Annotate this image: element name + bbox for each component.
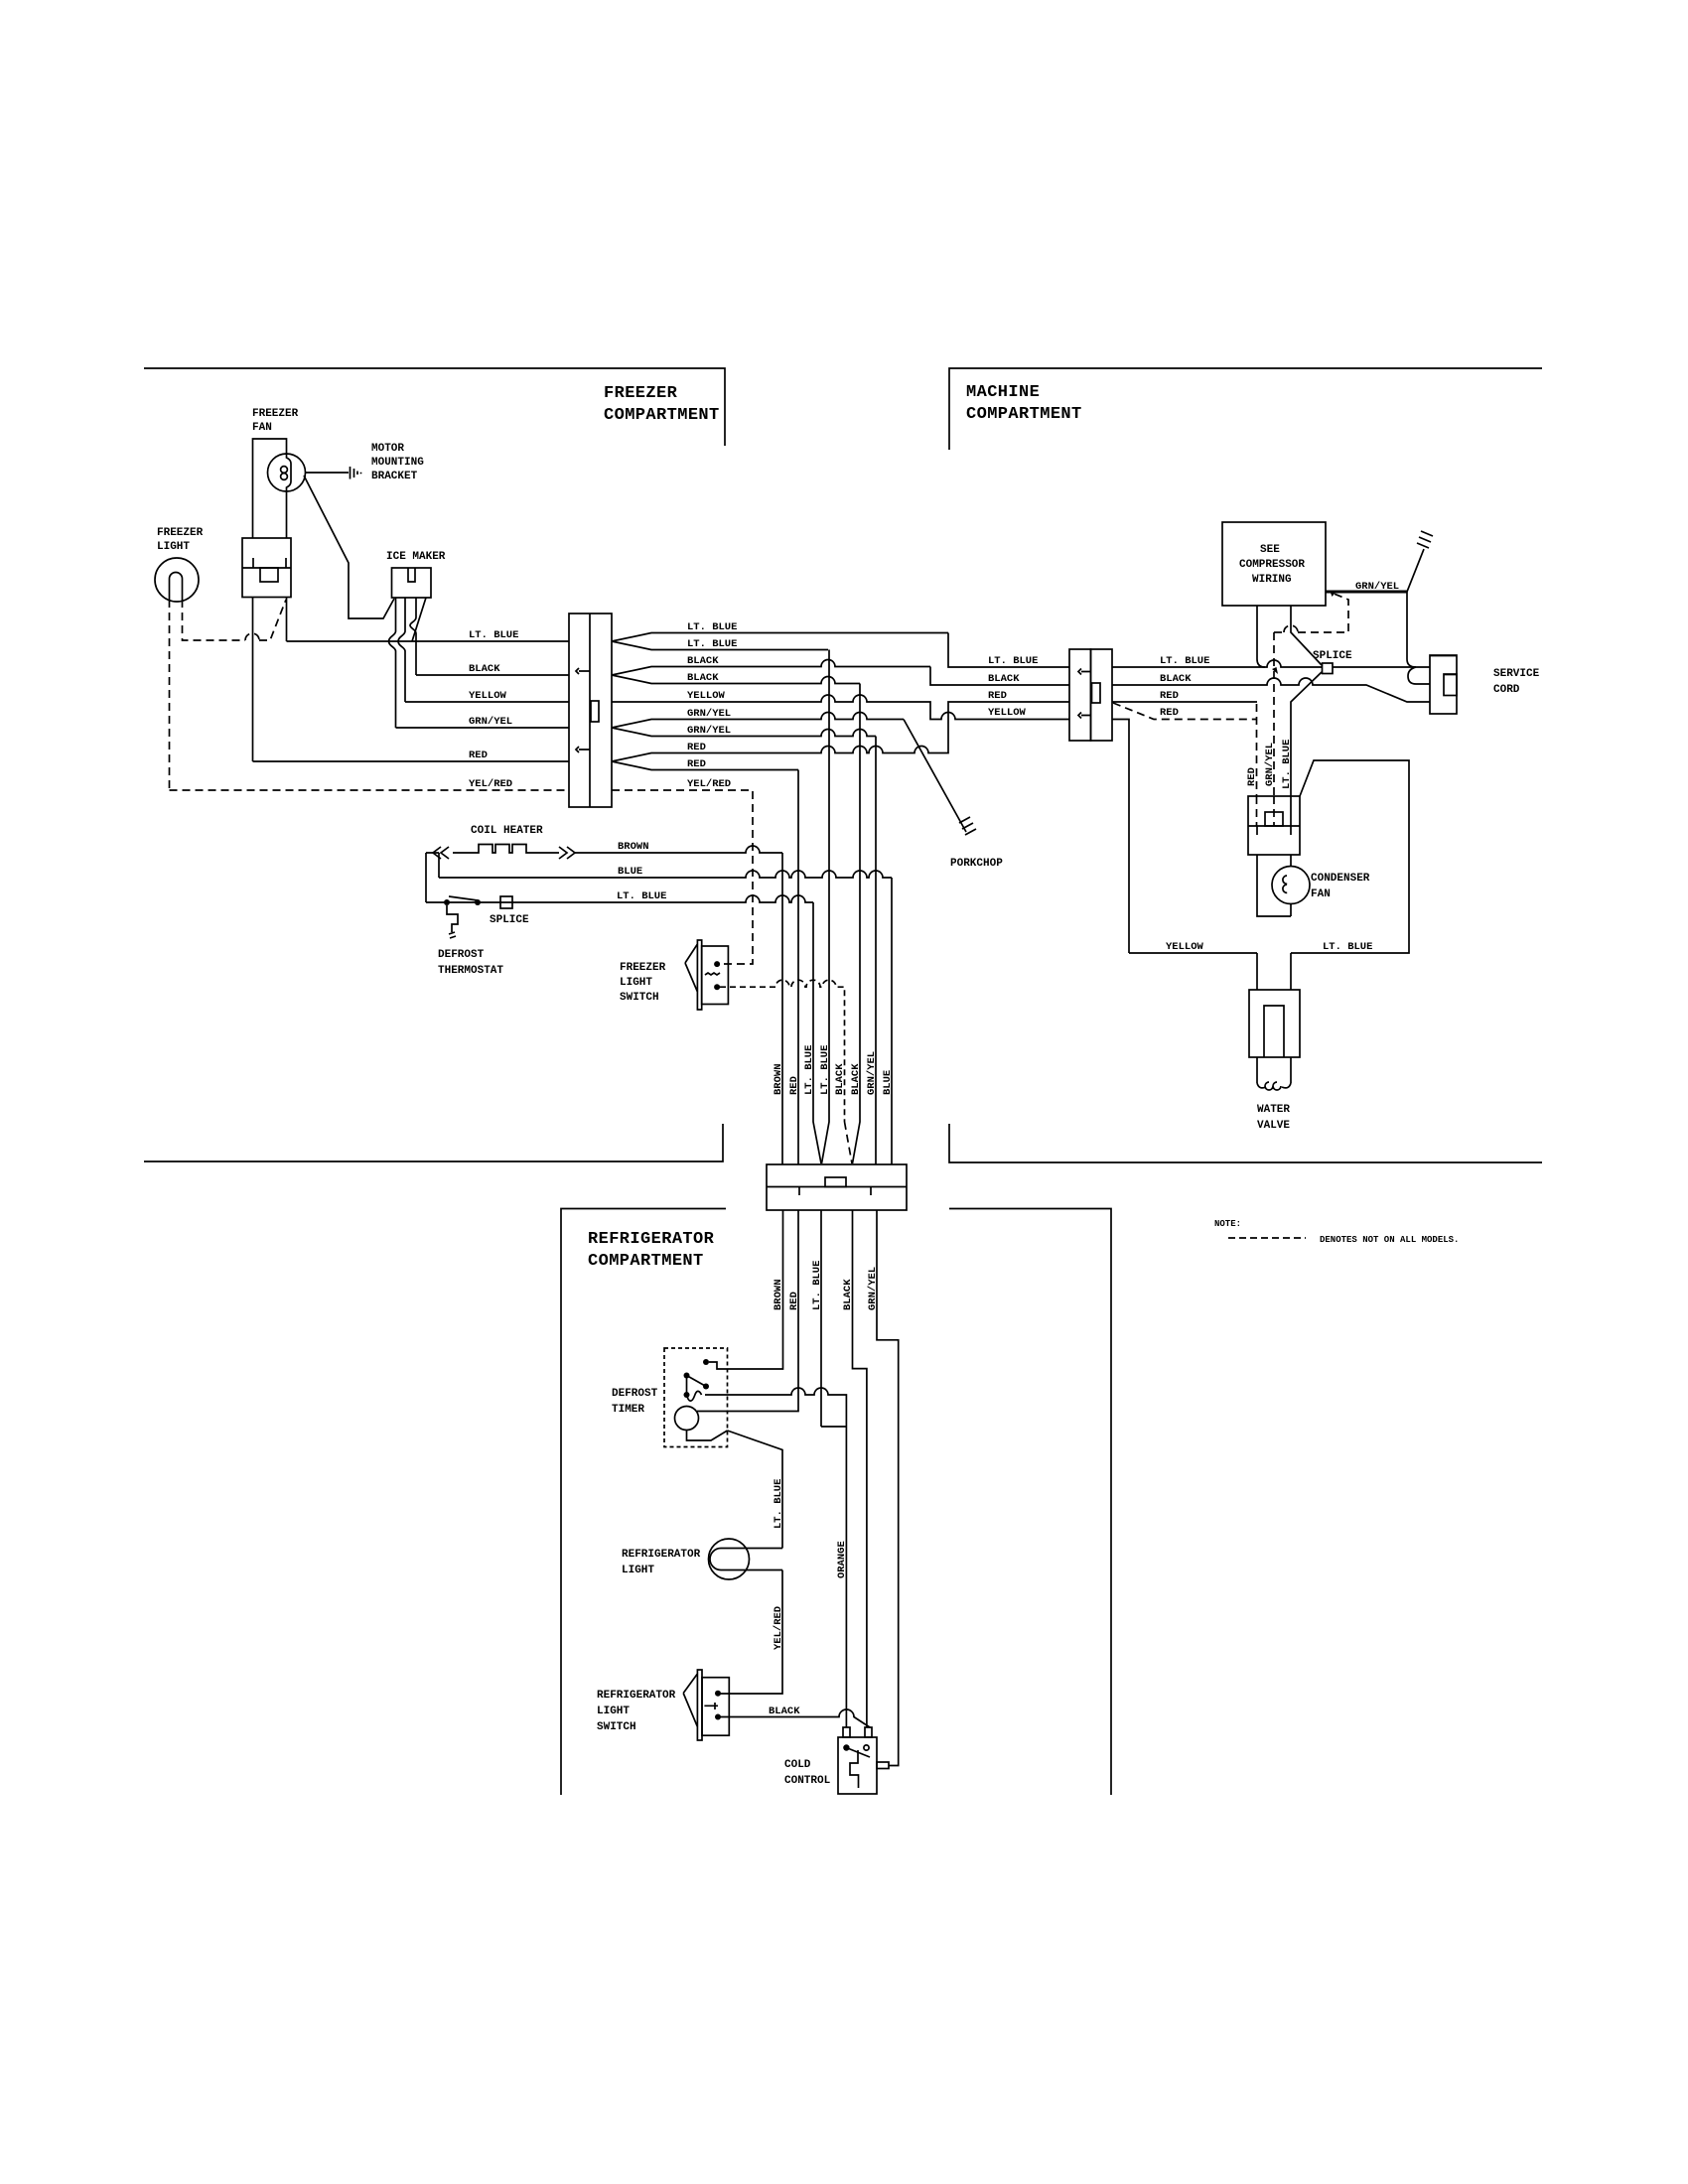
svg-text:DENOTES NOT ON ALL MODELS.: DENOTES NOT ON ALL MODELS. xyxy=(1320,1235,1459,1245)
bundle labels upper xyxy=(773,1045,894,1095)
wire: BLACK below connector xyxy=(853,1210,867,1727)
wire: LT.BLUE bundle vertical 1 xyxy=(813,902,821,1163)
svg-text:REFRIGERATOR: REFRIGERATOR xyxy=(622,1549,701,1561)
svg-text:GRN/YEL: GRN/YEL xyxy=(687,725,731,737)
pennant LT. BLUE pair xyxy=(612,621,948,650)
wire: fan circle to body xyxy=(286,491,288,538)
svg-text:ICE MAKER: ICE MAKER xyxy=(386,551,446,563)
wire: RED machine right xyxy=(1112,690,1257,702)
splice (machine) xyxy=(1313,650,1352,674)
wire: yellow/lt.blue big loop xyxy=(1129,760,1409,953)
svg-text:BLUE: BLUE xyxy=(882,1070,894,1095)
svg-text:SWITCH: SWITCH xyxy=(597,1721,636,1733)
svg-text:DEFROST: DEFROST xyxy=(612,1388,658,1400)
wire: timer motor LT. BLUE down xyxy=(728,1431,785,1549)
wire: terminal box verticals inside xyxy=(1257,796,1275,826)
freezer fan motor circle xyxy=(268,454,306,491)
svg-text:YELLOW: YELLOW xyxy=(988,707,1027,719)
wire: GRN/YEL bundle vertical xyxy=(875,737,877,1165)
porkchop leader xyxy=(904,720,1003,871)
wire: BLACK machine right xyxy=(1112,673,1430,702)
wire: BLUE coil heater xyxy=(439,853,892,878)
svg-text:SPLICE: SPLICE xyxy=(490,914,529,926)
svg-text:REFRIGERATOR: REFRIGERATOR xyxy=(597,1690,676,1702)
freezer compartment label xyxy=(604,384,720,425)
wire: defrost timer contact to orange xyxy=(705,1388,846,1427)
svg-text:REFRIGERATOR: REFRIGERATOR xyxy=(588,1230,715,1249)
wire: GRN/YEL dashed to terminal box xyxy=(1264,632,1278,796)
svg-text:TIMER: TIMER xyxy=(612,1404,644,1416)
svg-text:CONDENSER: CONDENSER xyxy=(1311,873,1370,885)
svg-text:LT. BLUE: LT. BLUE xyxy=(1281,740,1293,789)
freezer compartment border xyxy=(144,368,725,1161)
wire: dashed diagonal to fan body xyxy=(259,600,286,640)
svg-text:LT. BLUE: LT. BLUE xyxy=(819,1045,831,1095)
freezer fan body xyxy=(242,538,291,598)
refrigerator connector xyxy=(767,1164,907,1210)
wire: BLUE bundle vertical xyxy=(891,878,893,1164)
svg-text:COMPARTMENT: COMPARTMENT xyxy=(588,1252,704,1271)
svg-text:LT. BLUE: LT. BLUE xyxy=(988,655,1038,667)
svg-text:RED: RED xyxy=(1246,767,1258,786)
wire: condenser fan loop xyxy=(1257,855,1291,916)
wire: YELLOW to loop xyxy=(1112,720,1129,954)
svg-text:BLACK: BLACK xyxy=(842,1279,854,1310)
svg-text:WIRING: WIRING xyxy=(1252,574,1292,586)
svg-text:VALVE: VALVE xyxy=(1257,1120,1290,1132)
wire: YEL/RED dashed into switch xyxy=(720,959,753,964)
svg-text:YELLOW: YELLOW xyxy=(1166,941,1204,953)
svg-text:MOTOR: MOTOR xyxy=(371,443,404,455)
svg-text:BLACK: BLACK xyxy=(850,1063,862,1095)
freezer light switch xyxy=(620,940,728,1010)
svg-text:FREEZER: FREEZER xyxy=(252,408,299,420)
svg-text:LT. BLUE: LT. BLUE xyxy=(1323,941,1372,953)
svg-text:COMPARTMENT: COMPARTMENT xyxy=(604,406,720,425)
svg-text:FREEZER: FREEZER xyxy=(157,527,204,539)
wire: dashed arc over fan wire xyxy=(245,633,259,640)
wire: BLACK freezer xyxy=(416,674,569,676)
svg-text:SPLICE: SPLICE xyxy=(1313,650,1352,662)
svg-text:FAN: FAN xyxy=(252,422,272,434)
svg-text:YEL/RED: YEL/RED xyxy=(773,1606,784,1650)
svg-text:FREEZER: FREEZER xyxy=(604,384,678,403)
svg-text:GRN/YEL: GRN/YEL xyxy=(687,708,731,720)
svg-text:DEFROST: DEFROST xyxy=(438,949,485,961)
svg-text:LT. BLUE: LT. BLUE xyxy=(617,890,666,902)
freezer light xyxy=(155,527,204,602)
svg-text:COMPRESSOR: COMPRESSOR xyxy=(1239,559,1305,571)
ice maker xyxy=(386,551,446,598)
svg-text:LT. BLUE: LT. BLUE xyxy=(687,621,737,633)
machine compartment label xyxy=(966,383,1082,424)
svg-text:YELLOW: YELLOW xyxy=(687,690,726,702)
freezer fan label xyxy=(252,408,299,434)
svg-text:COLD: COLD xyxy=(784,1759,811,1771)
wire: freezer light YEL/RED dashed drop xyxy=(169,600,171,790)
wire: GRN/YEL freezer xyxy=(396,727,570,729)
condenser fan xyxy=(1272,867,1370,904)
wire: BLACK bundle vertical xyxy=(853,684,861,1164)
wire: LT.BLUE to terminal box xyxy=(1281,672,1322,796)
wire: LT. BLUE machine right xyxy=(1112,655,1322,667)
wire: RED bundle vertical xyxy=(797,770,799,1165)
svg-text:LIGHT: LIGHT xyxy=(620,977,652,989)
defrost thermostat xyxy=(438,896,503,977)
wire: switch to BLACK dashed xyxy=(720,980,845,1122)
wire: YELLOW freezer xyxy=(405,701,569,703)
svg-text:COMPARTMENT: COMPARTMENT xyxy=(966,405,1082,424)
svg-text:CORD: CORD xyxy=(1493,684,1520,696)
wire: BROWN bundle vertical xyxy=(781,853,783,1164)
wire: LT. BLUE freezer xyxy=(287,640,570,642)
svg-text:RED: RED xyxy=(788,1076,800,1095)
wire: YELLOW through xyxy=(612,690,1069,720)
wire: LT. BLUE coil heater xyxy=(426,890,813,902)
svg-text:BROWN: BROWN xyxy=(773,1279,784,1310)
water valve xyxy=(1249,953,1300,1132)
wire: compressor left drop xyxy=(1257,606,1265,667)
wire: RED dashed to terminal box xyxy=(1246,704,1258,796)
wire: grn/yel S into plug xyxy=(1408,667,1430,684)
compressor box xyxy=(1222,522,1326,606)
svg-text:PORKCHOP: PORKCHOP xyxy=(950,858,1003,870)
svg-text:BLACK: BLACK xyxy=(469,663,500,675)
svg-text:BLACK: BLACK xyxy=(769,1706,800,1717)
wire: RED below connector xyxy=(697,1210,798,1412)
svg-text:BROWN: BROWN xyxy=(773,1063,784,1095)
freezer wire labels xyxy=(469,629,518,790)
svg-text:LT. BLUE: LT. BLUE xyxy=(803,1045,815,1095)
svg-text:RED: RED xyxy=(469,750,488,761)
svg-text:BLACK: BLACK xyxy=(1160,673,1192,685)
wire: ice maker pin 4 to LT.BLUE xyxy=(412,598,426,641)
svg-text:GRN/YEL: GRN/YEL xyxy=(1355,581,1399,593)
svg-text:LT. BLUE: LT. BLUE xyxy=(773,1479,784,1529)
svg-text:LT. BLUE: LT. BLUE xyxy=(811,1261,823,1310)
refrigerator light xyxy=(622,1539,782,1579)
pennant RED pair xyxy=(612,702,1069,770)
wire: freezer light to fan dashed xyxy=(183,600,246,640)
machine compartment border xyxy=(949,368,1542,1162)
svg-text:ORANGE: ORANGE xyxy=(836,1541,848,1578)
defrost timer xyxy=(612,1348,728,1447)
svg-text:YEL/RED: YEL/RED xyxy=(469,778,512,790)
svg-text:LT. BLUE: LT. BLUE xyxy=(687,638,737,650)
refrigerator light switch xyxy=(597,1670,729,1740)
svg-text:SERVICE: SERVICE xyxy=(1493,668,1540,680)
compressor terminal box xyxy=(1248,796,1300,855)
wire: ice maker pin 1 to GRN/YEL xyxy=(389,598,396,728)
service cord xyxy=(1430,655,1540,714)
svg-text:BRACKET: BRACKET xyxy=(371,471,418,482)
refrigerator compartment label xyxy=(588,1230,715,1271)
wire: splice to service cord xyxy=(1333,666,1430,668)
wire: LT.BLUE bundle vertical 2 xyxy=(822,650,830,1164)
svg-text:LT. BLUE: LT. BLUE xyxy=(1160,655,1209,667)
svg-text:SEE: SEE xyxy=(1260,544,1280,556)
svg-text:MOUNTING: MOUNTING xyxy=(371,457,424,469)
wire: RED dashed machine right xyxy=(1113,703,1256,720)
wire: grn/yel down to service cord xyxy=(1407,592,1416,667)
pennant BLACK pair xyxy=(612,655,930,684)
cold control xyxy=(784,1727,889,1794)
svg-text:RED: RED xyxy=(687,742,706,753)
wire: YEL/RED freezer dashed xyxy=(170,789,570,791)
wire: BROWN below connector xyxy=(709,1210,783,1369)
refrigerator compartment border xyxy=(561,1209,1111,1796)
wire: fan left lead down xyxy=(252,598,254,762)
wire: ORANGE down xyxy=(836,1427,848,1727)
machine compartment wires left of connector xyxy=(930,633,1069,720)
splice (freezer) xyxy=(490,896,529,926)
svg-text:BLACK: BLACK xyxy=(988,673,1020,685)
wire: YEL/RED to switch xyxy=(720,1570,784,1695)
svg-text:BLUE: BLUE xyxy=(618,866,642,878)
wire: GRN/YEL below connector xyxy=(877,1210,899,1766)
svg-text:LIGHT: LIGHT xyxy=(157,541,190,553)
svg-text:THERMOSTAT: THERMOSTAT xyxy=(438,965,503,977)
svg-text:CONTROL: CONTROL xyxy=(784,1775,831,1787)
pennant GRN/YEL pair xyxy=(612,708,904,737)
grn/yel ground leader xyxy=(1407,531,1433,592)
svg-text:COIL HEATER: COIL HEATER xyxy=(471,825,543,837)
wire: BLACK switch to cold control xyxy=(720,1706,870,1727)
bundle labels lower xyxy=(773,1261,879,1310)
motor mounting bracket label xyxy=(371,443,424,482)
wire: fan right lead to LT.BLUE xyxy=(286,598,288,642)
svg-text:NOTE:: NOTE: xyxy=(1214,1219,1241,1229)
wire: YEL/RED dashed to bundle xyxy=(612,778,753,959)
svg-text:YELLOW: YELLOW xyxy=(469,690,507,702)
wire: compressor LT.BLUE drop to splice xyxy=(1291,606,1322,665)
svg-text:BROWN: BROWN xyxy=(618,841,649,853)
motor mounting bracket symbol xyxy=(351,467,361,479)
svg-text:GRN/YEL: GRN/YEL xyxy=(867,1267,879,1310)
freezer connector xyxy=(569,614,612,807)
svg-text:FREEZER: FREEZER xyxy=(620,962,666,974)
svg-text:RED: RED xyxy=(1160,690,1179,702)
wire: RED freezer xyxy=(253,760,570,762)
svg-text:GRN/YEL: GRN/YEL xyxy=(469,716,512,728)
motor mounting bracket leader xyxy=(306,472,350,474)
svg-text:BLACK: BLACK xyxy=(687,672,719,684)
svg-text:MACHINE: MACHINE xyxy=(966,383,1040,402)
machine connector xyxy=(1069,649,1112,741)
wire: fan loop top xyxy=(253,439,287,538)
svg-text:SWITCH: SWITCH xyxy=(620,992,659,1004)
svg-text:LT. BLUE: LT. BLUE xyxy=(469,629,518,641)
wire: LT.BLUE below connector xyxy=(820,1210,822,1427)
svg-text:LIGHT: LIGHT xyxy=(597,1706,630,1717)
svg-text:GRN/YEL: GRN/YEL xyxy=(1264,743,1276,786)
svg-text:RED: RED xyxy=(687,758,706,770)
wire: dashed GRN/YEL return to box xyxy=(1274,591,1348,633)
coil heater xyxy=(426,825,782,902)
wire: BLACK bundle dashed xyxy=(845,1122,853,1163)
wire: lt.blue to orange junction xyxy=(821,1426,846,1428)
svg-text:BLACK: BLACK xyxy=(687,655,719,667)
svg-text:BLACK: BLACK xyxy=(834,1063,846,1095)
svg-text:WATER: WATER xyxy=(1257,1104,1290,1116)
wire: GRN/YEL heavy xyxy=(1326,581,1407,593)
svg-text:RED: RED xyxy=(788,1292,800,1310)
note xyxy=(1214,1219,1459,1245)
svg-text:RED: RED xyxy=(1160,707,1179,719)
wire: ice maker pin 3 to BLACK xyxy=(410,598,416,675)
svg-text:GRN/YEL: GRN/YEL xyxy=(866,1051,878,1095)
svg-text:LIGHT: LIGHT xyxy=(622,1565,654,1576)
svg-text:FAN: FAN xyxy=(1311,888,1331,900)
wire: ice maker pin 2 to YELLOW xyxy=(398,598,405,702)
svg-text:RED: RED xyxy=(988,690,1007,702)
wire: fan to ice maker diagonal xyxy=(304,476,394,618)
svg-text:YEL/RED: YEL/RED xyxy=(687,778,731,790)
